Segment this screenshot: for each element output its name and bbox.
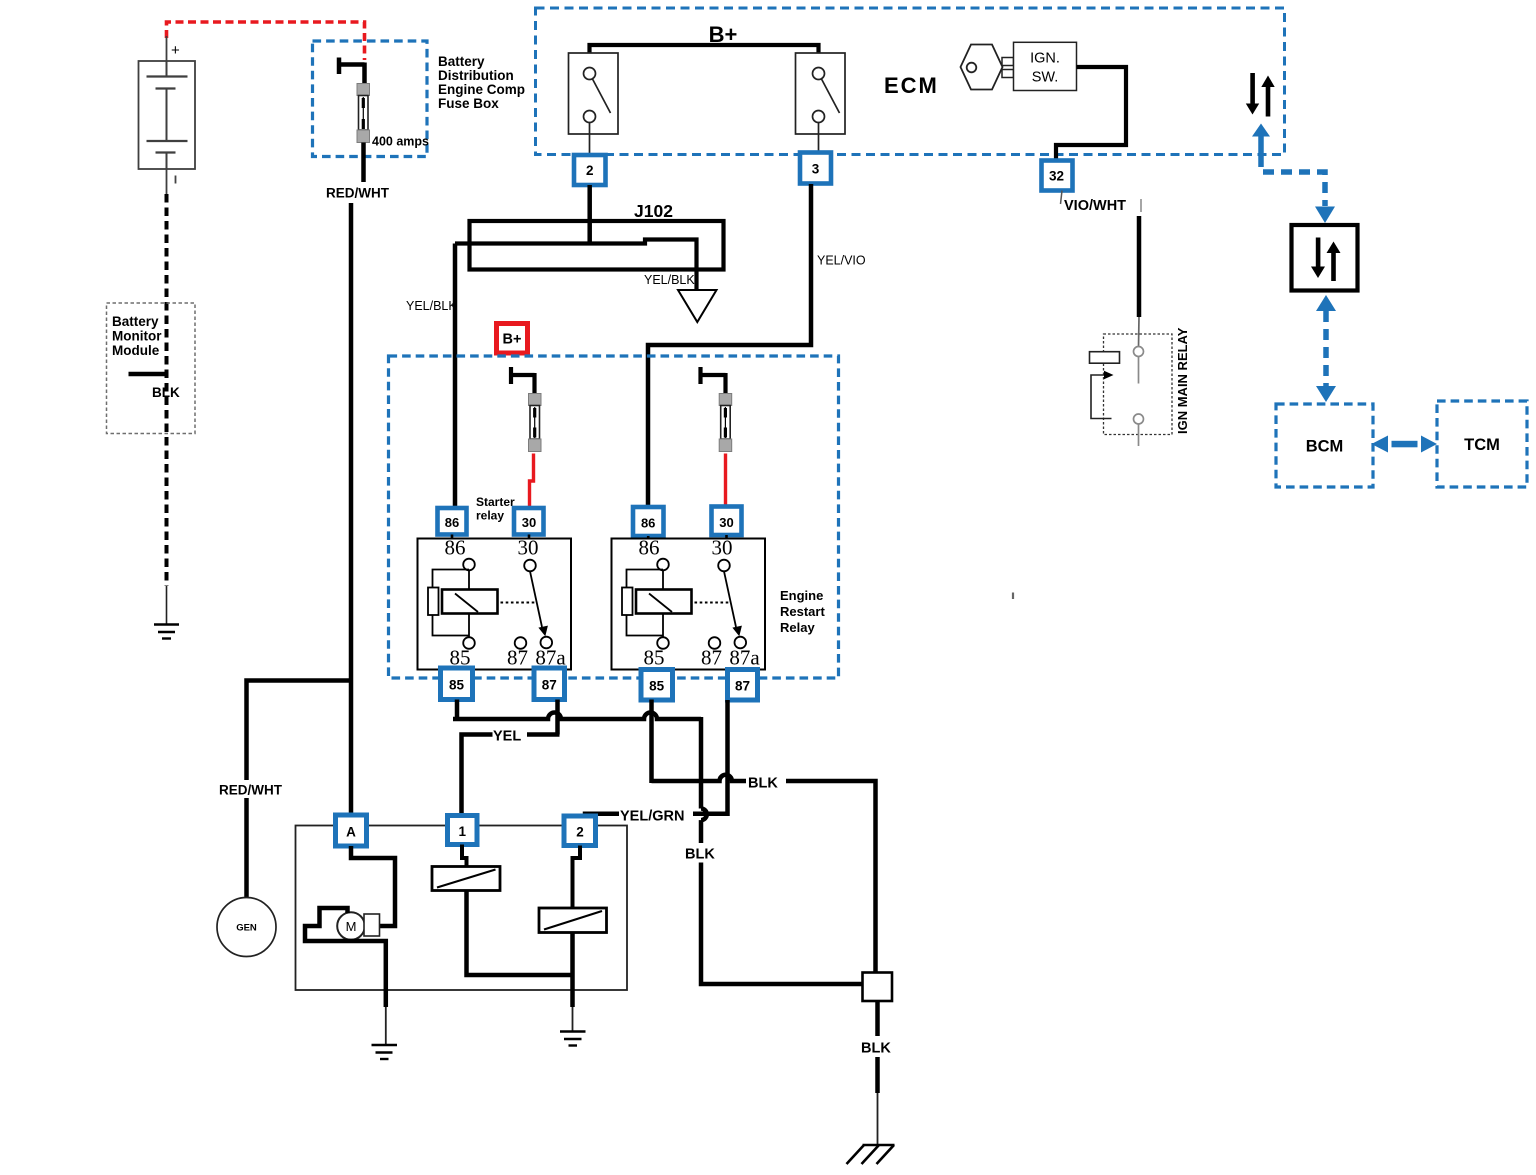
wire pin85 R1 down to bus	[455, 700, 460, 722]
wire RED/WHT fuse box to label	[361, 143, 366, 183]
ground G1 (battery monitor ground)	[154, 625, 179, 639]
stray mark	[1012, 593, 1014, 600]
svg-text:30: 30	[719, 515, 733, 530]
wire pin2 to J102	[587, 185, 592, 244]
svg-text:YEL/VIO: YEL/VIO	[817, 254, 866, 268]
relay module outer box (blue dashed)	[389, 356, 839, 678]
ECM module (blue dashed box)	[536, 8, 1285, 155]
wire YEL/GRN from starter pin 2	[585, 814, 619, 817]
wire YEL/VIO pin3 to engine restart relay pin 86	[648, 184, 811, 508]
pin 32 (ECM)	[1042, 161, 1073, 191]
svg-text:32: 32	[1049, 169, 1064, 184]
ground triangle (YEL/BLK)	[678, 290, 717, 322]
BCM module (blue dashed box)	[1276, 404, 1373, 487]
wire RED/WHT main vertical to pin A	[349, 203, 354, 816]
wire red F2 to pin 30	[530, 454, 534, 507]
pin 2 (starter)	[564, 816, 596, 846]
svg-text:GEN: GEN	[236, 923, 257, 934]
IGN. SW. box	[1014, 42, 1077, 90]
svg-text:86: 86	[445, 515, 459, 530]
gateway box with data arrows	[1292, 225, 1358, 291]
svg-text:87a: 87a	[729, 646, 760, 670]
pin 2 (ECM)	[574, 155, 606, 185]
wire motor brush loop to ground	[305, 908, 386, 1007]
svg-text:Relay: Relay	[780, 620, 815, 635]
svg-text:Monitor: Monitor	[112, 329, 162, 344]
svg-text:85: 85	[449, 678, 465, 693]
pin 30 (engine restart relay)	[712, 507, 742, 540]
svg-text:86: 86	[639, 536, 660, 560]
wire pin87 R2 down to YEL/GRN	[709, 700, 728, 814]
comm arrow up into ECM (blue)	[1252, 124, 1270, 155]
pin 86 (starter relay)	[438, 508, 467, 539]
svg-text:IGN.: IGN.	[1030, 51, 1060, 67]
wire IGN SW to pin 32	[1056, 67, 1126, 161]
svg-text:YEL/BLK: YEL/BLK	[644, 273, 695, 287]
svg-text:Fuse Box: Fuse Box	[438, 96, 499, 111]
pin 30 (starter relay)	[514, 508, 544, 539]
svg-text:VIO/WHT: VIO/WHT	[1064, 198, 1126, 214]
svg-text:1: 1	[459, 824, 467, 839]
fuse F1 400A	[337, 58, 429, 149]
pin 1 (starter)	[448, 816, 478, 845]
svg-text:87: 87	[507, 646, 528, 670]
wire BLK from R2-85 with hop	[652, 775, 747, 781]
wire red F3 to pin 30	[724, 454, 727, 507]
wire VIO/WHT down to IGN main relay	[1137, 216, 1142, 317]
svg-text:87: 87	[701, 646, 722, 670]
svg-text:RED/WHT: RED/WHT	[326, 186, 390, 201]
tick after VIO/WHT	[1140, 199, 1142, 212]
pin 85 (engine restart relay)	[641, 670, 673, 701]
switch S1 (ECM internal contact)	[569, 53, 619, 154]
svg-text:BLK: BLK	[685, 847, 715, 863]
svg-text:YEL/BLK: YEL/BLK	[406, 299, 457, 313]
solenoid coil 2	[539, 846, 607, 1008]
svg-text:400 amps: 400 amps	[372, 135, 429, 149]
chassis ground (bottom right)	[847, 1145, 895, 1164]
battery monitor module (dashed box)	[107, 303, 196, 434]
relay R2 (engine restart relay)	[612, 536, 766, 670]
comm double arrow BCM-TCM	[1372, 436, 1438, 453]
pin 85 (starter relay)	[441, 668, 473, 700]
junction J102 bus rectangle	[470, 221, 724, 270]
svg-text:Distribution: Distribution	[438, 68, 514, 83]
svg-text:2: 2	[586, 163, 594, 178]
wire pin87 R1 down through hop	[555, 700, 560, 735]
svg-text:M: M	[346, 919, 357, 934]
wire YEL segment right	[527, 732, 560, 737]
svg-text:85: 85	[644, 646, 665, 670]
ground G2 (starter motor)	[372, 1045, 398, 1059]
svg-text:J102: J102	[634, 201, 673, 221]
wire BLK bus with hops	[453, 713, 701, 720]
ignition key icon	[961, 45, 1014, 90]
svg-text:relay: relay	[476, 509, 504, 523]
pin 86 (engine restart relay)	[633, 507, 664, 539]
comm arrowhead down into gateway	[1315, 207, 1335, 224]
wire BLK vertical from bus with hop over YEL/GRN	[701, 717, 707, 843]
pin 87 (starter relay)	[534, 668, 565, 700]
svg-text:86: 86	[641, 516, 655, 531]
wire pin85 R2 down	[649, 700, 654, 784]
svg-text:YEL: YEL	[493, 729, 521, 745]
svg-text:ECM: ECM	[884, 73, 939, 98]
svg-text:A: A	[346, 825, 356, 840]
svg-text:BLK: BLK	[748, 776, 778, 792]
fuse F2 (starter relay feed)	[509, 367, 541, 452]
svg-text:Starter: Starter	[476, 495, 515, 509]
starter motor M	[337, 912, 379, 940]
svg-text:TCM: TCM	[1464, 436, 1500, 454]
svg-text:YEL/GRN: YEL/GRN	[620, 809, 684, 825]
svg-text:86: 86	[445, 536, 466, 560]
fuse F3 (engine restart relay feed)	[699, 367, 732, 452]
svg-text:BCM: BCM	[1306, 438, 1344, 456]
svg-text:SW.: SW.	[1032, 70, 1059, 86]
svg-text:+: +	[171, 42, 180, 59]
svg-text:Battery: Battery	[112, 314, 159, 329]
tick below pin 32	[1061, 191, 1063, 205]
B+ red tag	[497, 324, 528, 354]
wire B+ bus inside ECM	[590, 45, 819, 66]
comm dashed vertical gateway to BCM	[1323, 311, 1329, 386]
svg-text:30: 30	[712, 536, 733, 560]
svg-text:Engine: Engine	[780, 588, 823, 603]
comm dashed route ECM to gateway box (blue)	[1261, 156, 1325, 206]
svg-text:87: 87	[735, 679, 750, 694]
svg-text:IGN MAIN RELAY: IGN MAIN RELAY	[1175, 327, 1190, 434]
battery B1	[139, 36, 196, 194]
starter assembly box	[296, 826, 628, 991]
wire pin A to motor	[351, 846, 395, 926]
pin A (starter)	[336, 815, 367, 846]
IGN MAIN RELAY (dotted box)	[1090, 327, 1191, 446]
switch S2 (ECM internal contact)	[796, 53, 846, 152]
fuse box: Battery Distribution Engine Comp Fuse Box (blue dashed)	[313, 41, 526, 157]
svg-text:BLK: BLK	[861, 1041, 891, 1057]
svg-text:B+: B+	[503, 332, 522, 348]
solenoid coil 1	[432, 845, 573, 976]
svg-text:Module: Module	[112, 343, 160, 358]
wire J102 middle branch	[455, 240, 697, 291]
generator GEN	[217, 898, 276, 957]
svg-text:87: 87	[542, 678, 557, 693]
wire BLK continue to connector	[701, 863, 863, 985]
connector box G	[863, 973, 893, 1002]
comm arrow up into gateway (blue)	[1316, 295, 1336, 311]
svg-text:3: 3	[812, 162, 820, 177]
svg-text:85: 85	[649, 679, 665, 694]
wire RED battery positive to fuse box (red dashed)	[167, 22, 365, 60]
wire YEL/BLK to starter relay pin 86	[453, 244, 458, 509]
svg-text:2: 2	[576, 825, 584, 840]
svg-text:Engine Comp: Engine Comp	[438, 82, 525, 97]
comm arrowhead down into BCM	[1316, 386, 1336, 402]
pin 87 (engine restart relay)	[728, 670, 758, 701]
pin 3 (ECM)	[800, 153, 831, 184]
wire BLK to bottom connector	[786, 781, 876, 973]
ground G3 (starter solenoid)	[560, 1032, 586, 1046]
svg-text:BLK: BLK	[152, 385, 180, 400]
svg-text:30: 30	[522, 515, 536, 530]
wire BLK battery negative (black dashed)	[165, 194, 169, 586]
wire BLK connector to ground	[875, 1001, 880, 1036]
svg-text:30: 30	[518, 536, 539, 560]
wire RED/WHT branch to generator	[247, 681, 352, 781]
wire YEL segment left + down to starter pin 1	[462, 735, 493, 817]
data arrows icon (inside ECM, top right)	[1246, 73, 1275, 117]
svg-text:Restart: Restart	[780, 604, 825, 619]
wire RED/WHT label to GEN	[244, 798, 249, 898]
svg-text:Battery: Battery	[438, 54, 485, 69]
relay R1 (starter relay)	[418, 536, 572, 670]
TCM module (blue dashed box)	[1437, 401, 1527, 487]
svg-text:RED/WHT: RED/WHT	[219, 783, 283, 798]
